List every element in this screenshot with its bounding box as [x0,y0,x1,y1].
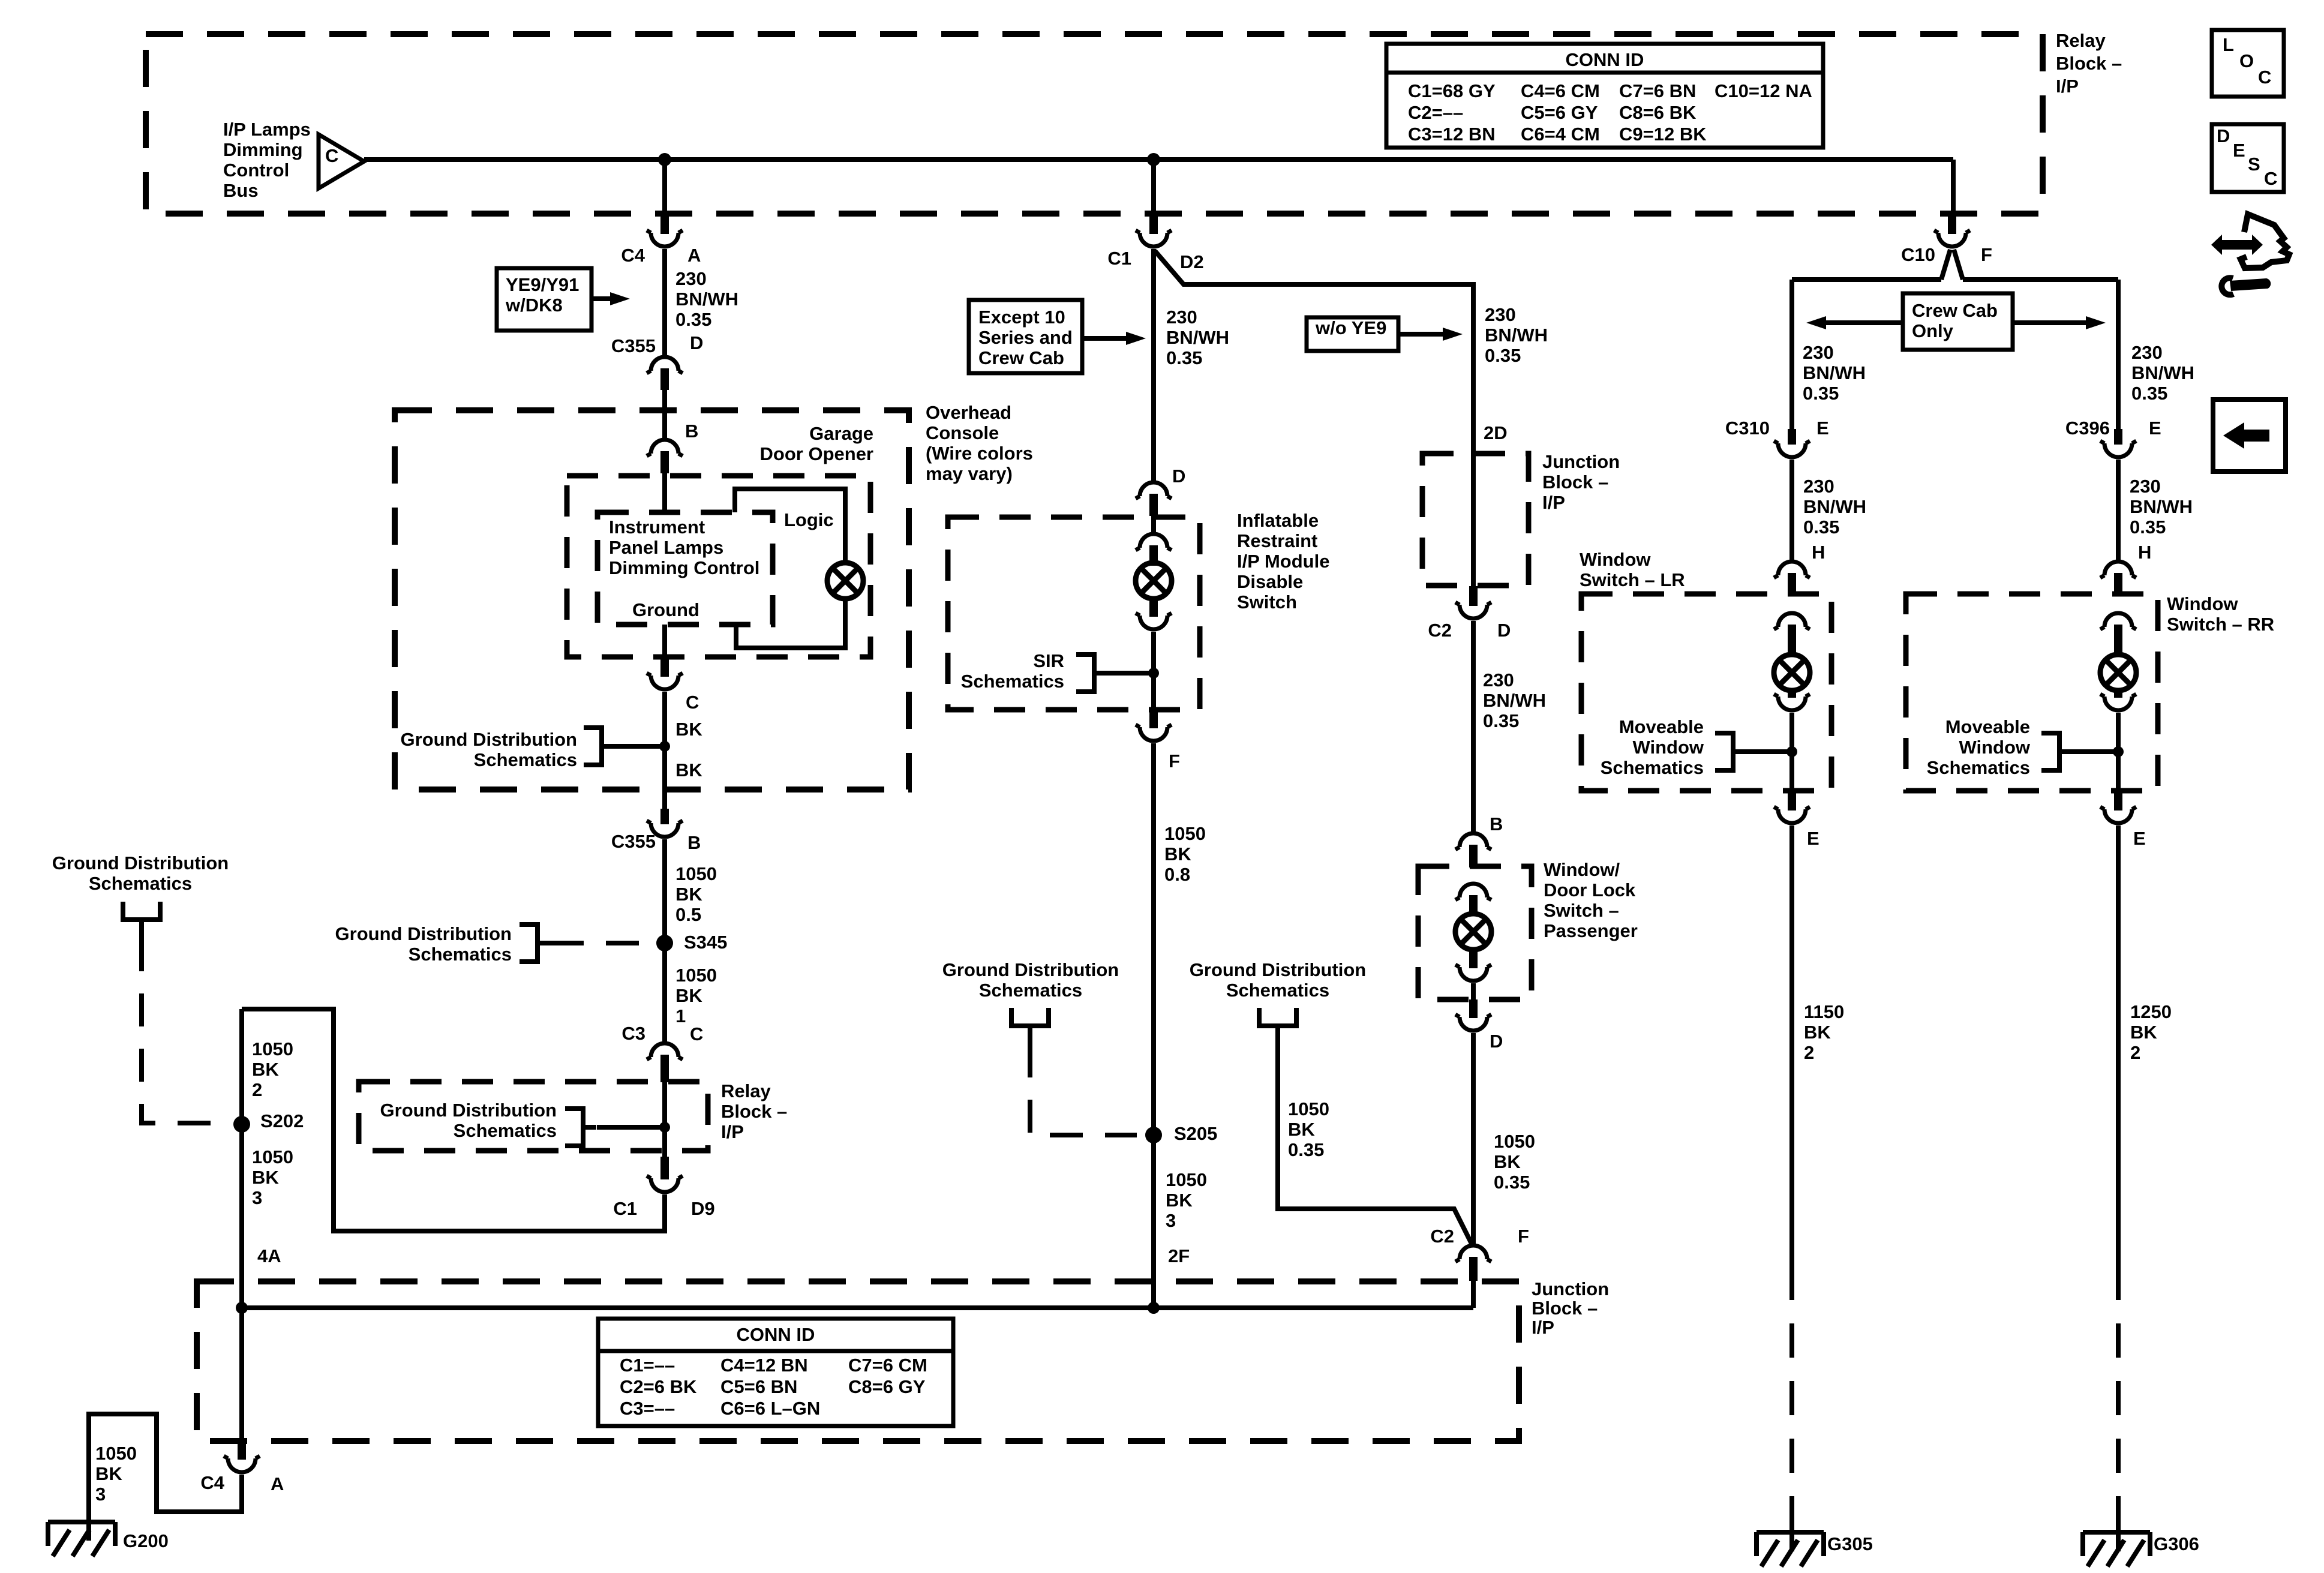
Relay Block I/P dashed box (lower) [359,1082,708,1151]
svg-text:BK: BK [2130,1022,2157,1043]
wire: C310 to window switch LR [1789,460,1794,560]
svg-text:C4: C4 [621,245,645,266]
svg-text:230: 230 [675,268,707,289]
svg-text:230: 230 [1803,476,1834,497]
svg-text:Logic: Logic [784,509,834,530]
node: moveable window tap (RR) [2113,746,2124,757]
svg-text:C7=6 CM: C7=6 CM [848,1355,927,1376]
svg-text:0.8: 0.8 [1164,864,1190,885]
svg-text:Door Opener: Door Opener [760,443,873,464]
svg-text:C1=68 GY: C1=68 GY [1408,80,1496,101]
svg-text:1: 1 [675,1005,686,1026]
svg-text:1050: 1050 [675,863,717,884]
table: CONN ID (junction block) [598,1319,953,1426]
wire label 230 BN/WH 0.35 (column B) [1166,307,1229,368]
svg-text:BK: BK [1164,843,1191,864]
node: relay block ground tap [659,1122,670,1133]
svg-text:I/P Module: I/P Module [1237,551,1329,572]
wire: C4-A to G200 [89,1414,242,1541]
svg-text:C: C [686,692,699,713]
svg-text:I/P: I/P [721,1121,744,1142]
node: 4A junction [236,1302,248,1314]
svg-text:C7=6 BN: C7=6 BN [1619,80,1696,101]
box: w/o YE9 [1307,317,1398,351]
label: Window/Door Lock Switch - Passenger [1544,859,1638,941]
svg-text:0.35: 0.35 [2130,517,2166,538]
connector C396 pin E [2100,429,2136,457]
svg-text:C5=6 BN: C5=6 BN [720,1376,797,1397]
svg-text:Relay: Relay [2056,30,2106,51]
svg-text:0.35: 0.35 [1483,710,1519,731]
svg-text:BK: BK [1166,1190,1193,1211]
svg-text:F: F [1981,244,1992,265]
splice S205 [1145,1127,1162,1143]
label: Ground Distribution Schematics (passenger branch) [1190,959,1366,1001]
svg-text:Dimming Control: Dimming Control [609,557,759,578]
wire: RR to G306 (dashed) [2116,1266,2121,1533]
svg-text:Schematics: Schematics [1226,980,1329,1001]
svg-text:E: E [2149,418,2161,439]
svg-text:C3=12 BN: C3=12 BN [1408,124,1496,145]
svg-text:0.35: 0.35 [1485,345,1521,366]
wire label 1050 BK 0.35 (column C) [1494,1131,1535,1193]
svg-text:E: E [2133,828,2146,849]
svg-text:2: 2 [2130,1042,2140,1063]
wire: C2-D to switch [1471,621,1476,831]
Window Switch RR dashed box [1906,594,2158,791]
svg-text:D: D [2217,125,2230,146]
connector C2 pin F (junction block entry) [1455,1245,1491,1281]
label: Overhead Console (Wire colors may vary) [926,402,1033,484]
svg-text:Overhead: Overhead [926,402,1011,423]
wire: D to switch [1151,516,1156,532]
svg-text:230: 230 [1166,307,1197,328]
connector inside passenger switch (top) [1455,884,1491,914]
passenger switch lamp [1455,914,1491,950]
label: Ground Distribution Schematics (relay block) [380,1100,557,1141]
svg-text:CONN ID: CONN ID [1566,49,1644,70]
connector inside RR switch (top) [2100,613,2136,654]
svg-text:Window/: Window/ [1544,859,1620,880]
box: Except 10 Series and Crew Cab [969,300,1082,373]
svg-text:S205: S205 [1174,1123,1217,1144]
ground G305 [1756,1532,1824,1566]
svg-text:Ground Distribution: Ground Distribution [380,1100,557,1121]
wire: bus to C4 [662,160,667,215]
svg-text:C8=6 GY: C8=6 GY [848,1376,926,1397]
wire: C to splice in console [662,692,667,789]
reference bracket (S345) [520,924,551,962]
svg-text:Window: Window [1632,737,1704,758]
svg-text:Except 10: Except 10 [978,307,1065,328]
wire: lamp to LR tap [1789,713,1794,791]
svg-text:Crew Cab: Crew Cab [1912,300,1998,321]
wire: 2D riser [1471,420,1476,456]
label: Junction Block - I/P (column C) [1542,451,1620,513]
svg-text:D: D [1497,620,1511,641]
node: 2F junction [1148,1302,1160,1314]
wire label 230 BN/WH 0.35 (C396 upper) [2131,342,2194,404]
svg-text:Switch – RR: Switch – RR [2167,614,2274,635]
wire: bus to C10 [1951,160,1956,215]
svg-text:C1=––: C1=–– [620,1355,675,1376]
svg-text:Ground Distribution: Ground Distribution [942,959,1119,980]
svg-text:Schematics: Schematics [454,1120,557,1141]
svg-text:G200: G200 [123,1530,169,1551]
svg-text:Schematics: Schematics [1601,757,1704,778]
wire label 1050 BK 3 [252,1146,293,1208]
wire label 1050 BK 2 [252,1038,293,1100]
svg-text:230: 230 [1483,670,1514,691]
connector B into garage door opener [647,440,683,473]
icon: DESC box [2212,124,2284,192]
svg-text:S202: S202 [260,1110,304,1131]
label: I/P Lamps Dimming Control Bus [223,119,311,201]
arrow: w/o YE9 to wire [1398,328,1463,341]
svg-text:C9=12 BK: C9=12 BK [1619,124,1707,145]
logic loop wiring [735,489,845,648]
wire: through junction block [1471,454,1476,587]
svg-text:D: D [1490,1031,1503,1052]
svg-text:G305: G305 [1827,1533,1873,1554]
arrow: Crew Cab Only left [1806,316,1903,329]
RR switch lamp [2100,655,2136,691]
wire label 1050 BK 3 (G200 lead) [95,1443,137,1505]
wire: riser to C2-F [1471,1281,1476,1308]
svg-text:Control: Control [223,160,289,181]
connector E (LR switch exit) [1774,791,1810,823]
svg-text:BN/WH: BN/WH [1166,327,1229,348]
reference bracket (SIR) [1076,655,1107,692]
svg-text:Moveable: Moveable [1945,716,2030,737]
connector C1 pin D9 (relay block exit) [647,1157,683,1192]
svg-text:Block –: Block – [2056,53,2122,74]
wire: dimming control bus [364,157,1953,162]
reference bracket (top left) [123,902,160,939]
label: Relay Block - I/P (lower) [721,1080,787,1142]
svg-text:BN/WH: BN/WH [675,289,738,310]
svg-text:I/P: I/P [2056,76,2079,97]
svg-text:D2: D2 [1180,251,1204,272]
wire: to lamp [1149,561,1158,566]
svg-text:1050: 1050 [95,1443,137,1464]
svg-text:Ground: Ground [632,599,699,620]
Inflatable Restraint disable switch dashed box [948,517,1200,710]
svg-text:1050: 1050 [1164,823,1206,844]
svg-text:1050: 1050 [252,1038,293,1059]
svg-text:1250: 1250 [2130,1001,2172,1022]
svg-text:0.5: 0.5 [675,904,701,925]
connector D (passenger switch exit) [1455,999,1491,1031]
connector C310 pin E [1774,429,1810,457]
wire: B to dimming control module [662,473,667,512]
reference bracket (passenger branch) [1259,1008,1296,1045]
Instrument Panel Lamps Dimming Control dashed box [597,512,773,625]
node: SIR tap [1148,668,1159,679]
svg-text:BK: BK [252,1059,279,1080]
svg-text:BN/WH: BN/WH [1803,362,1866,383]
svg-text:E: E [2233,140,2245,161]
LR switch lamp [1774,655,1810,691]
wire: ground lead inside GDO [662,625,667,658]
svg-text:2: 2 [252,1079,262,1100]
svg-text:C2: C2 [1430,1226,1454,1247]
svg-text:I/P: I/P [1542,492,1565,513]
arrow: Except 10 to wire [1082,332,1146,345]
svg-text:Schematics: Schematics [89,873,192,894]
svg-text:may vary): may vary) [926,463,1013,484]
svg-text:Block –: Block – [1532,1298,1598,1319]
svg-text:C2=––: C2=–– [1408,102,1463,123]
wire: lamp to box exit [1471,983,1476,1000]
wire: branch to C2-F [1278,1044,1472,1244]
wire: F to S205 [1151,743,1156,1135]
svg-text:1050: 1050 [675,965,717,986]
svg-text:3: 3 [1166,1210,1176,1231]
svg-text:1050: 1050 [252,1146,293,1167]
wire: C355-D into overhead console [662,390,667,438]
svg-text:Restraint: Restraint [1237,530,1317,551]
wire: C1 down (230 BN/WH) [1151,249,1156,481]
wire: lamp to SIR tap [1151,632,1156,710]
wire label 230 BN/WH 0.35 [675,268,738,330]
wire: C10 Y-split [1792,250,2118,431]
svg-text:I/P: I/P [1532,1317,1554,1338]
Garage Door Opener dashed box [567,476,870,657]
wire label 1050 BK 0.5 [675,863,717,925]
svg-text:C355: C355 [611,335,656,356]
wire: junction block bus [242,1305,1473,1310]
wire: S202 riser [239,1009,244,1440]
Overhead Console dashed box [395,410,909,789]
node: moveable window tap (LR) [1786,746,1797,757]
svg-text:Switch –: Switch – [1544,900,1619,921]
svg-text:BN/WH: BN/WH [1485,325,1548,346]
svg-text:1050: 1050 [1166,1169,1207,1190]
svg-text:Moveable: Moveable [1619,716,1704,737]
svg-text:Window: Window [1580,549,1651,570]
reference bracket (S205) [1011,1008,1049,1045]
dashed reference wire to S202 [142,938,231,1123]
svg-text:Junction: Junction [1542,451,1620,472]
wire: RR to G306 (solid) [2116,825,2121,1266]
svg-text:Ground Distribution: Ground Distribution [52,852,229,873]
svg-text:Door Lock: Door Lock [1544,879,1636,900]
label: Inflatable Restraint I/P Module Disable Switch [1237,510,1329,613]
svg-text:D: D [1172,466,1185,487]
label: Moveable Window Schematics (LR) [1601,716,1704,778]
svg-text:230: 230 [2131,342,2163,363]
svg-text:C3=––: C3=–– [620,1398,675,1419]
connector C2 pin D (junction block exit) [1455,586,1491,619]
svg-text:BN/WH: BN/WH [1803,496,1866,517]
svg-text:C: C [325,145,338,166]
label: Ground Distribution Schematics (console) [401,729,577,770]
splice S345 [656,935,673,951]
wire label 230 BN/WH 0.35 (C310 lower) [1803,476,1866,538]
icon: back arrow box [2213,400,2286,472]
svg-text:C10=12 NA: C10=12 NA [1715,80,1812,101]
svg-text:0.35: 0.35 [1494,1172,1530,1193]
svg-text:O: O [2239,50,2254,71]
svg-text:C4=12 BN: C4=12 BN [720,1355,808,1376]
label: Moveable Window Schematics (RR) [1927,716,2031,778]
svg-text:BK: BK [675,760,702,781]
svg-text:BK: BK [675,884,702,905]
wire: tap to bracket [615,744,665,749]
wire: D2 branch to column C [1155,251,1473,456]
svg-text:C396: C396 [2065,418,2110,439]
svg-text:C: C [2264,168,2277,189]
svg-text:E: E [1807,828,1819,849]
svg-text:C4=6 CM: C4=6 CM [1521,80,1600,101]
label: Junction Block - I/P (bottom right) [1532,1278,1609,1338]
svg-text:C6=4 CM: C6=4 CM [1521,124,1600,145]
connector inside LR switch (top) [1774,613,1810,654]
svg-text:0.35: 0.35 [1803,383,1839,404]
svg-text:C3: C3 [621,1023,645,1044]
svg-text:BK: BK [1288,1119,1315,1140]
svg-text:(Wire colors: (Wire colors [926,443,1033,464]
label: Window Switch - RR [2167,593,2274,635]
box: Crew Cab Only [1903,293,2013,350]
svg-text:Disable: Disable [1237,571,1303,592]
svg-text:Panel Lamps: Panel Lamps [609,537,723,558]
svg-text:BK: BK [1804,1022,1831,1043]
svg-text:Series and: Series and [978,327,1073,348]
wire: SIR tap lead [1107,671,1154,676]
wire: tap to bracket (relay block) [597,1125,665,1130]
svg-text:Junction: Junction [1532,1278,1609,1299]
svg-text:Schematics: Schematics [409,944,512,965]
connector C4 pin A (junction block exit, bottom) [224,1440,260,1472]
svg-text:1150: 1150 [1804,1001,1844,1022]
svg-text:C10: C10 [1901,244,1935,265]
svg-text:C355: C355 [611,831,656,852]
svg-text:D9: D9 [691,1198,715,1219]
svg-text:C4: C4 [200,1472,224,1493]
connector C3 pin C (relay block entry) [647,1043,683,1082]
disable switch lamp [1136,563,1172,599]
svg-text:S345: S345 [684,932,727,953]
svg-text:C2: C2 [1428,620,1452,641]
svg-text:F: F [1169,751,1180,772]
svg-text:2F: 2F [1168,1245,1190,1266]
svg-text:H: H [1812,542,1825,563]
svg-text:w/DK8: w/DK8 [505,295,563,316]
svg-text:B: B [687,832,701,853]
svg-text:G306: G306 [2154,1533,2199,1554]
label: Relay Block - I/P [2056,30,2122,97]
svg-text:C310: C310 [1725,418,1770,439]
svg-text:Schematics: Schematics [979,980,1082,1001]
svg-text:0.35: 0.35 [1166,347,1202,368]
svg-text:BN/WH: BN/WH [1483,690,1546,711]
connector inside disable switch (top) [1136,534,1172,563]
svg-text:Ground Distribution: Ground Distribution [1190,959,1366,980]
svg-text:BN/WH: BN/WH [2131,362,2194,383]
wire label 1050 BK 3 (S205) [1166,1169,1207,1231]
connector C355 pin D [647,357,683,390]
svg-text:2D: 2D [1484,422,1508,443]
dashed reference wire to S205 [1030,1044,1137,1135]
node: bus junction column A [658,153,671,166]
svg-text:Block –: Block – [1542,472,1608,493]
wire label 230 BN/WH 0.35 (column C mid) [1483,670,1546,731]
svg-text:3: 3 [95,1484,106,1505]
wire label 1150 BK 2 [1804,1001,1844,1063]
svg-text:0.35: 0.35 [675,309,711,330]
label: Ground Distribution Schematics (top left) [52,852,229,894]
svg-text:C2=6 BK: C2=6 BK [620,1376,697,1397]
svg-text:Switch: Switch [1237,592,1297,613]
svg-text:C8=6 BK: C8=6 BK [1619,102,1697,123]
svg-text:Schematics: Schematics [1927,757,2030,778]
wire label 1050 BK 0.35 (branch) [1288,1098,1329,1160]
svg-text:BN/WH: BN/WH [2130,496,2193,517]
svg-text:4A: 4A [257,1245,281,1266]
label: Garage Door Opener [760,423,873,464]
svg-text:BK: BK [1494,1151,1521,1172]
connector C (garage door opener exit) [647,657,683,689]
svg-text:S: S [2248,154,2260,175]
svg-text:230: 230 [1485,304,1516,325]
wire: C355-B to S345 [662,839,667,943]
svg-text:Bus: Bus [223,180,259,201]
box: YE9/Y91 w/DK8 [497,268,591,331]
wire: LR to G305 (dashed) [1789,1266,1794,1533]
icon: LOC box [2212,30,2284,97]
svg-text:Window: Window [1959,737,2030,758]
svg-text:1050: 1050 [1288,1098,1329,1119]
label: Ground Distribution Schematics (S345) [335,923,512,965]
wire: LR tap lead [1746,749,1792,754]
wire: S205 to junction block [1151,1135,1156,1308]
connector D into disable switch harness [1136,482,1172,516]
wire: LR to G305 (solid) [1789,825,1794,1266]
connector H into window switch RR [2100,562,2136,595]
ground G306 [2083,1532,2150,1566]
label: Window Switch - LR [1580,549,1685,590]
garage door opener lamp [827,563,863,599]
svg-text:BK: BK [95,1463,122,1484]
icon: animal head with double arrow and wrench [2211,214,2289,295]
wire: console exit to C355-B [662,789,667,810]
wire: passenger switch to C2-F [1471,1033,1476,1244]
connector inside passenger switch (bottom) [1455,950,1491,981]
svg-text:1050: 1050 [1494,1131,1535,1152]
svg-text:I/P Lamps: I/P Lamps [223,119,311,140]
wire label 1250 BK 2 [2130,1001,2172,1063]
svg-text:0.35: 0.35 [2131,383,2167,404]
svg-text:Relay: Relay [721,1080,771,1101]
svg-text:0.35: 0.35 [1803,517,1839,538]
svg-text:B: B [685,421,698,442]
wire: bus to C1 [1151,160,1156,215]
svg-text:C1: C1 [1107,248,1131,269]
node: ground distribution tap [659,741,670,752]
arrow: Crew Cab Only right [2013,316,2106,329]
svg-text:C5=6 GY: C5=6 GY [1521,102,1598,123]
svg-text:BK: BK [675,985,702,1006]
wire label 230 BN/WH 0.35 (C310 upper) [1803,342,1866,404]
svg-text:Console: Console [926,422,999,443]
svg-text:Passenger: Passenger [1544,920,1638,941]
connector E (RR switch exit) [2100,791,2136,823]
svg-text:Crew Cab: Crew Cab [978,347,1064,368]
svg-text:F: F [1518,1226,1529,1247]
svg-text:BK: BK [675,719,702,740]
